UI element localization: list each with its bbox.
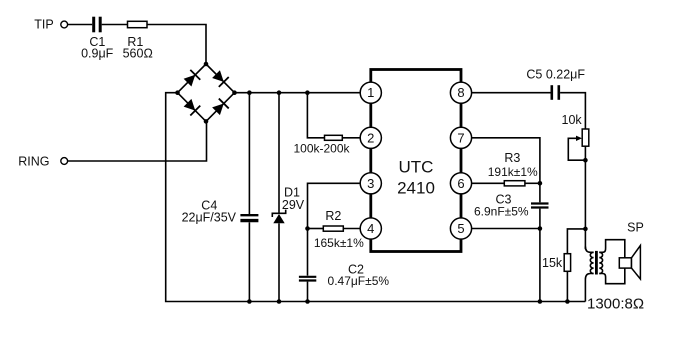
svg-text:191k±1%: 191k±1% bbox=[488, 165, 538, 179]
resistor 100k-200k bbox=[293, 93, 360, 156]
pin 2 bbox=[360, 127, 381, 148]
svg-text:UTC: UTC bbox=[399, 158, 434, 177]
svg-text:2410: 2410 bbox=[397, 179, 435, 198]
op-amp U1 UTC2410 body bbox=[371, 70, 461, 252]
svg-text:R3: R3 bbox=[504, 151, 520, 165]
svg-text:TIP: TIP bbox=[34, 18, 53, 32]
node bridge right bbox=[232, 90, 237, 95]
capacitor C4 bbox=[182, 93, 259, 302]
resistor R3 bbox=[472, 151, 540, 186]
pin 1 bbox=[360, 82, 381, 103]
wire pin5 branch bbox=[472, 228, 540, 230]
resistor R1 bbox=[123, 21, 153, 60]
svg-text:C5 0.22μF: C5 0.22μF bbox=[526, 68, 585, 82]
capacitor C1 bbox=[81, 17, 114, 61]
transformer T1 core bbox=[595, 251, 598, 275]
wire 15k top link bbox=[567, 229, 585, 254]
wire 10k down the right line bbox=[584, 146, 586, 249]
pin 4 bbox=[360, 218, 381, 239]
wire C3 ground drop bbox=[539, 229, 541, 302]
wire top rail bbox=[235, 92, 361, 94]
svg-text:10k: 10k bbox=[562, 113, 583, 127]
diode bridge arms bbox=[178, 64, 235, 121]
node R3 junction bbox=[538, 181, 543, 186]
svg-text:100k-200k: 100k-200k bbox=[293, 142, 350, 156]
node D1 top junction bbox=[277, 90, 282, 95]
transformer T1 secondary bbox=[599, 240, 625, 284]
capacitor C3 bbox=[474, 183, 549, 228]
pin 3 bbox=[360, 173, 381, 194]
pin 7 bbox=[450, 127, 471, 148]
node C2 bottom junction bbox=[305, 299, 310, 304]
variable resistor 10k bbox=[562, 113, 589, 160]
svg-text:RING: RING bbox=[18, 155, 49, 169]
wire pin7 branch bbox=[472, 138, 540, 184]
svg-text:29V: 29V bbox=[282, 198, 305, 212]
wire C1 to R1 bbox=[102, 24, 128, 26]
svg-text:0.9μF: 0.9μF bbox=[81, 47, 114, 61]
pin 8 bbox=[450, 82, 471, 103]
diode bridge D-topright bbox=[211, 69, 229, 87]
svg-text:15k: 15k bbox=[542, 256, 563, 270]
wire R1 to bridge top bbox=[147, 25, 206, 65]
capacitor C5 bbox=[526, 68, 585, 100]
svg-text:SP: SP bbox=[627, 221, 644, 235]
wire RING to bridge bottom bbox=[68, 121, 207, 161]
capacitor C2 bbox=[299, 229, 389, 302]
diode bridge D-topleft bbox=[183, 70, 201, 88]
svg-text:1300:8Ω: 1300:8Ω bbox=[587, 296, 644, 313]
svg-text:3: 3 bbox=[367, 176, 374, 191]
node R2 junction bbox=[305, 226, 310, 231]
node 15k link junction bbox=[583, 227, 588, 232]
svg-text:1: 1 bbox=[367, 85, 374, 100]
wire TIP to C1 bbox=[68, 24, 93, 26]
wire C5 to 10k bbox=[560, 93, 585, 129]
node bridge bottom bbox=[204, 119, 209, 124]
svg-text:5: 5 bbox=[457, 221, 464, 236]
wire left drop and bottom rail bbox=[166, 93, 586, 302]
pin 5 bbox=[450, 218, 471, 239]
zener diode D1 bbox=[272, 93, 304, 302]
svg-text:165k±1%: 165k±1% bbox=[314, 236, 364, 250]
svg-text:22μF/35V: 22μF/35V bbox=[182, 211, 237, 225]
node RING terminal bbox=[18, 155, 67, 169]
node TIP terminal bbox=[34, 18, 67, 32]
node 10k wiper junction bbox=[583, 158, 588, 163]
diode bridge D-bottomright bbox=[211, 99, 229, 117]
svg-text:8: 8 bbox=[457, 85, 464, 100]
node 100k top junction bbox=[305, 90, 310, 95]
node C4 bottom junction bbox=[247, 299, 252, 304]
node 15k bottom junction bbox=[565, 299, 570, 304]
pin 6 bbox=[450, 173, 471, 194]
svg-text:6.9nF±5%: 6.9nF±5% bbox=[474, 205, 529, 219]
wire pin8 to C5 bbox=[472, 92, 551, 94]
svg-text:2: 2 bbox=[367, 130, 374, 145]
node D1 bottom junction bbox=[277, 299, 282, 304]
node ground junction C3 bbox=[538, 299, 543, 304]
svg-text:560Ω: 560Ω bbox=[123, 47, 153, 61]
node bridge top bbox=[204, 62, 209, 67]
diode bridge D-bottomleft bbox=[183, 98, 201, 116]
svg-text:R2: R2 bbox=[325, 209, 341, 223]
svg-text:7: 7 bbox=[457, 130, 464, 145]
svg-text:0.47μF±5%: 0.47μF±5% bbox=[328, 274, 390, 288]
transformer T1 primary bbox=[585, 247, 593, 302]
node bridge left bbox=[175, 90, 180, 95]
svg-text:6: 6 bbox=[457, 176, 464, 191]
resistor 15k bbox=[542, 254, 571, 302]
wire pin3 branch bbox=[308, 183, 361, 228]
node C4 top junction bbox=[247, 90, 252, 95]
svg-text:4: 4 bbox=[367, 221, 374, 236]
node pin5 C3 junction bbox=[538, 226, 543, 231]
speaker SP bbox=[619, 221, 644, 280]
resistor R2 bbox=[308, 209, 365, 250]
